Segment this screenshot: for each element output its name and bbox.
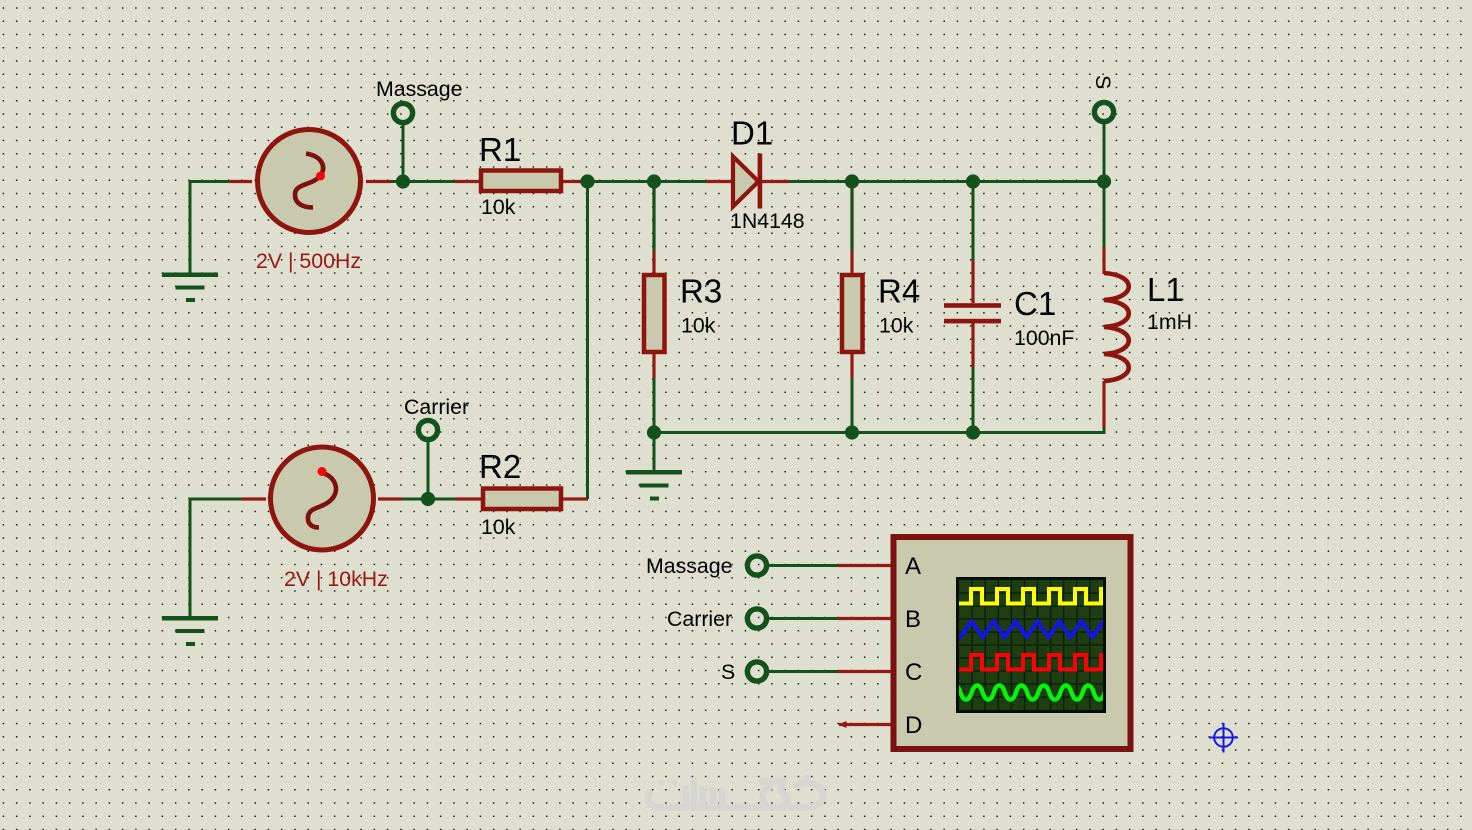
inductor L1 coils (1104, 273, 1129, 381)
wire: R1 output node down to R2 output (vertical x=587) (586, 182, 589, 500)
wire: C1 to ground rail (972, 367, 975, 432)
svg-text:2V | 500Hz: 2V | 500Hz (256, 249, 361, 273)
wire: node to diode D1 (588, 180, 707, 183)
svg-text:Massage: Massage (646, 554, 732, 578)
capacitor C1 pins (971, 259, 974, 367)
junction node at (973,181) (966, 174, 980, 188)
junction node at (587,181) (580, 174, 594, 188)
svg-text:10k: 10k (681, 314, 716, 338)
ground (rail) (626, 470, 682, 501)
junction node at (654,181) (647, 174, 661, 188)
watermark khamsat (648, 778, 823, 808)
svg-text:A: A (905, 553, 921, 580)
svg-text:1mH: 1mH (1147, 310, 1192, 334)
wire: node to C1 (972, 182, 975, 261)
terminal S (scope input C) (747, 662, 766, 681)
svg-text:S: S (721, 660, 735, 684)
resistor R3 pins (652, 182, 655, 379)
wire: V2 left to ground corner (190, 499, 242, 616)
junction node at (428,499) (421, 492, 435, 506)
sine source V1 pins (229, 180, 391, 183)
resistor R1 pins (455, 180, 588, 183)
sine source V2 pins (242, 497, 402, 500)
oscilloscope U1 body (894, 537, 1131, 749)
junction node at (654,432) (647, 425, 661, 439)
svg-text:R4: R4 (878, 273, 920, 310)
junction node at (403,181) (396, 174, 410, 188)
scope trace D (green sine wave) (949, 685, 1127, 699)
wire: Carrier terminal stem (427, 442, 430, 500)
junction node at (973,432) (966, 425, 980, 439)
terminal Carrier (top) (418, 420, 437, 439)
svg-text:D: D (905, 712, 922, 739)
scope screen background (959, 580, 1103, 710)
resistor R4 body (842, 275, 863, 352)
sine source V2 origin dot (318, 467, 327, 476)
sine source V1 squiggle (295, 154, 323, 208)
svg-text:Carrier: Carrier (404, 395, 469, 419)
junction node at (852,432) (845, 425, 859, 439)
wire: diode to output node S (789, 180, 1104, 183)
svg-text:2V | 10kHz: 2V | 10kHz (284, 567, 388, 591)
svg-text:1N4148: 1N4148 (730, 209, 805, 233)
wire: V2 to R2 (402, 498, 455, 501)
svg-text:10k: 10k (481, 195, 516, 219)
resistor R1 body (481, 171, 561, 192)
terminal S (top right) (1094, 102, 1113, 121)
svg-text:Massage: Massage (376, 77, 462, 101)
svg-text:B: B (905, 606, 921, 633)
scope screen frame (956, 577, 1106, 713)
scope pin D stub (unconnected) (839, 723, 891, 726)
svg-text:L1: L1 (1147, 271, 1184, 308)
wire: bottom ground rail (654, 427, 1104, 433)
svg-text:C1: C1 (1014, 285, 1056, 322)
diode D1 triangle (733, 157, 759, 207)
capacitor C1 plates (944, 303, 1001, 323)
resistor R2 pins (455, 497, 588, 500)
svg-text:10k: 10k (481, 515, 516, 539)
svg-text:R2: R2 (479, 448, 521, 485)
scope trace C (red square wave) (955, 655, 1107, 670)
inductor L1 top pin (1102, 246, 1105, 274)
svg-text:10k: 10k (879, 314, 914, 338)
wire: node to L1 (1103, 182, 1106, 248)
ground (V1) (162, 273, 218, 303)
terminal Massage (top) (393, 103, 412, 122)
svg-text:Carrier: Carrier (667, 607, 732, 631)
svg-text:D1: D1 (731, 115, 773, 152)
junction node at (1104,181) (1097, 174, 1111, 188)
scope pin B stub (838, 617, 891, 620)
wire: V1 to R1 (391, 180, 455, 183)
svg-text:100nF: 100nF (1014, 326, 1074, 350)
scope trace A (yellow square wave) (955, 589, 1107, 604)
wire: Massage to scope A (769, 564, 839, 567)
wire: rail to ground stem (653, 433, 656, 471)
resistor R3 body (644, 275, 665, 352)
scope trace B (blue sine wave) (955, 622, 1107, 638)
wire: S terminal stem (1103, 124, 1106, 182)
svg-text:R1: R1 (479, 131, 521, 168)
scope pin D arrowhead (838, 721, 847, 728)
wire: R3 to ground rail (653, 378, 656, 432)
resistor R4 pins (850, 182, 853, 379)
sine source V2 body (271, 447, 374, 550)
sine source V1 origin dot (316, 172, 325, 181)
resistor R2 body (483, 489, 561, 510)
inductor L1 bottom pin (1102, 381, 1105, 428)
sine source V2 squiggle (308, 473, 336, 528)
terminal Carrier (scope input B) (747, 609, 766, 628)
diode D1 pins (706, 180, 789, 183)
sine source V1 body (258, 130, 361, 233)
wire: S to scope C (769, 670, 839, 673)
diode D1 cathode bar (758, 154, 763, 209)
svg-text:R3: R3 (680, 273, 722, 310)
wire: node to R4 (851, 182, 854, 252)
wire: node to R3 (653, 182, 656, 252)
junction node at (852,181) (845, 174, 859, 188)
wire: Carrier to scope B (769, 617, 839, 620)
scope pin C stub (838, 670, 891, 673)
scope screen gridlines (959, 580, 1103, 710)
wire: R4 to ground rail (851, 378, 854, 432)
origin crosshair marker (1209, 723, 1238, 753)
svg-text:C: C (905, 659, 922, 686)
wire: V1 left to ground corner (190, 182, 229, 274)
ground (V2) (162, 616, 218, 646)
wire: Massage terminal stem (402, 125, 405, 182)
scope pin A stub (838, 564, 891, 567)
terminal Massage (scope input A) (747, 556, 766, 575)
svg-text:S: S (1091, 75, 1115, 89)
